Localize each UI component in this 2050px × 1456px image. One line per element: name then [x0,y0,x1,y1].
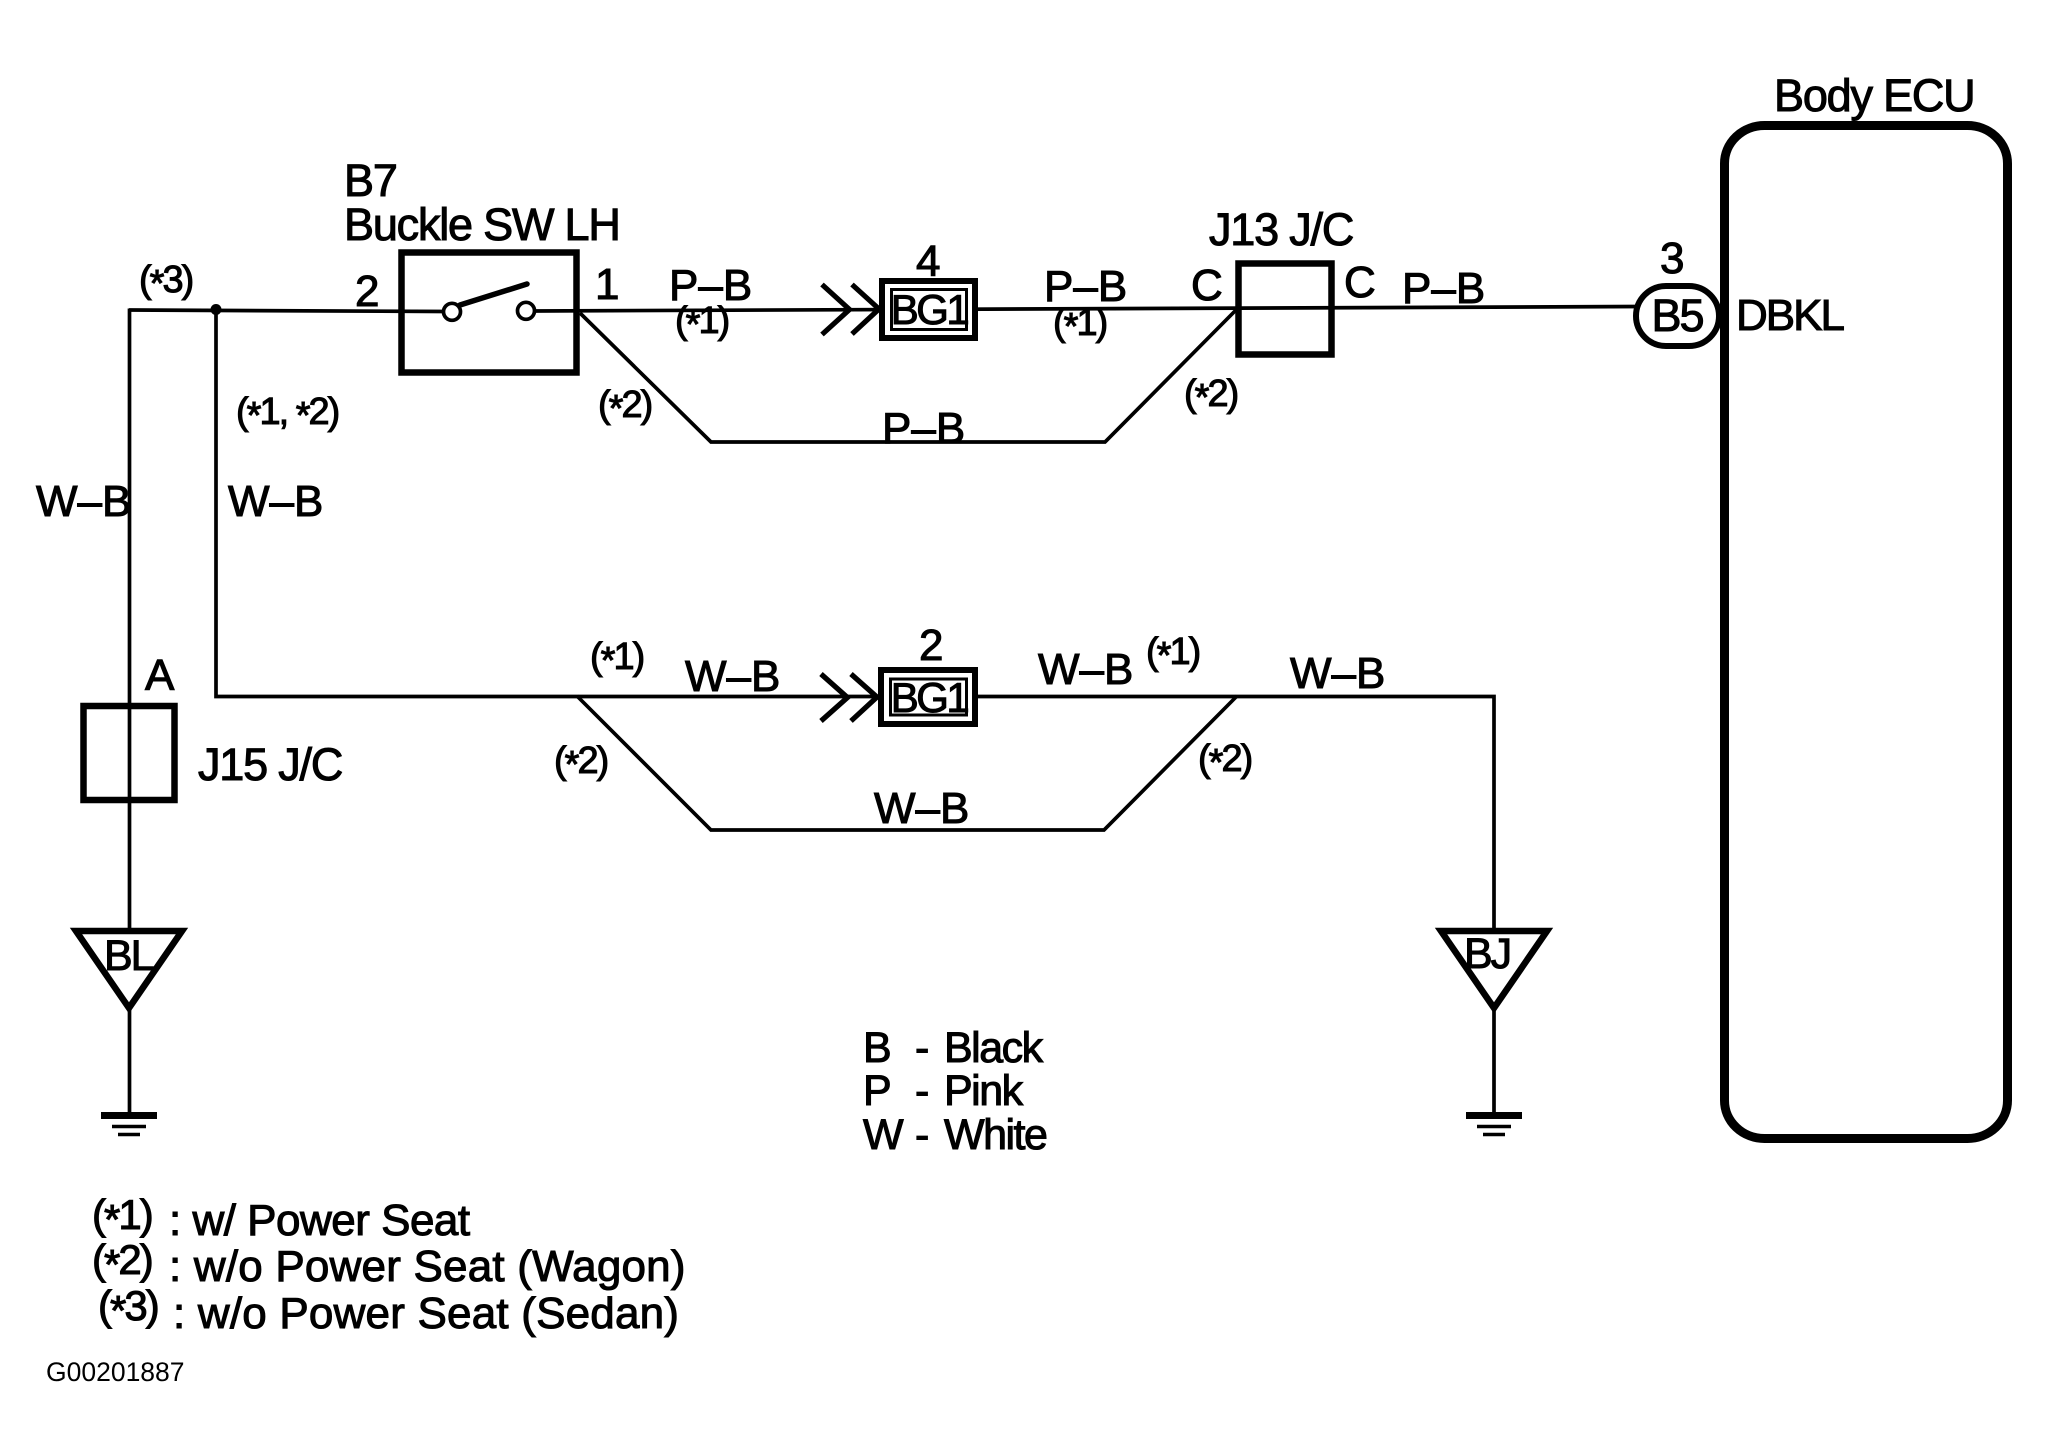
svg-text:4: 4 [916,237,940,286]
connector B5 oval [1636,286,1719,346]
connector arrows row1 [822,285,850,335]
svg-text:: w/o Power Seat (Sedan): : w/o Power Seat (Sedan) [173,1289,679,1338]
svg-text:W–B: W–B [874,784,969,833]
Body ECU box [1725,126,2008,1139]
ground symbol BL [101,1112,157,1119]
wire: left W-B vertical to BL [128,309,132,929]
wire: main row1 P-B net right segment [532,307,1640,312]
svg-text:(*2): (*2) [92,1236,152,1288]
svg-text:(*1, *2): (*1, *2) [236,391,339,437]
switch contact left [444,303,461,320]
svg-text:P: P [863,1067,892,1115]
wire: row2 (*2) bypass [577,696,1237,830]
svg-text:2: 2 [919,621,943,670]
switch B7 box [402,253,577,373]
svg-text:B5: B5 [1651,290,1703,341]
switch lever [460,284,527,305]
wire: row1 (*2) bypass [580,310,1236,442]
svg-text:2: 2 [355,267,379,316]
svg-text:(*2): (*2) [1198,738,1252,784]
svg-text:Black: Black [944,1024,1044,1072]
svg-text:P–B: P–B [882,404,965,453]
junction J15 J/C box [84,706,175,800]
svg-text:(*3): (*3) [98,1282,158,1334]
svg-text:W–B: W–B [685,652,780,701]
svg-text:(*2): (*2) [598,384,652,430]
svg-text:W–B: W–B [1038,645,1133,694]
svg-text:B: B [863,1024,892,1072]
svg-text:: w/ Power Seat: : w/ Power Seat [169,1196,470,1245]
svg-text:C: C [1344,258,1376,307]
svg-text:White: White [944,1111,1046,1159]
svg-text:J15 J/C: J15 J/C [198,739,342,790]
svg-text:C: C [1191,261,1223,310]
junction J13 J/C box [1239,264,1332,355]
svg-text:(*2): (*2) [1184,373,1238,419]
svg-text:-: - [915,1111,929,1159]
connector arrows row2 [821,674,848,721]
svg-text:Pink: Pink [944,1067,1024,1115]
connector BG1 row2 (pin 2) [881,670,975,724]
svg-text:3: 3 [1660,234,1684,283]
svg-text:(*1): (*1) [1146,631,1200,677]
svg-text:P–B: P–B [1402,264,1485,313]
svg-text:1: 1 [595,260,619,309]
svg-text:W: W [863,1111,904,1159]
wire: BL triangle to ground [128,1010,132,1114]
svg-text:BL: BL [104,932,154,980]
svg-text:: w/o Power Seat (Wagon): : w/o Power Seat (Wagon) [169,1242,686,1291]
node: junction dot [211,304,222,315]
svg-text:DBKL: DBKL [1736,291,1844,340]
ground triangle BL [76,931,182,1008]
svg-text:BJ: BJ [1464,930,1510,978]
svg-text:Buckle SW LH: Buckle SW LH [344,199,620,250]
svg-text:BG1: BG1 [891,286,969,333]
svg-text:Body ECU: Body ECU [1774,70,1974,121]
svg-text:A: A [145,651,175,700]
svg-text:(*1): (*1) [675,300,729,346]
svg-text:(*1): (*1) [1053,302,1107,348]
switch contact right [518,302,535,319]
svg-text:(*3): (*3) [139,259,193,305]
svg-text:-: - [915,1024,929,1072]
connector BG1 row1 (pin 4) [882,281,975,338]
svg-text:BG1: BG1 [891,674,969,721]
svg-text:-: - [915,1067,929,1115]
ground triangle BJ [1441,931,1547,1008]
svg-text:G00201887: G00201887 [46,1357,185,1387]
svg-text:(*1): (*1) [590,636,644,682]
svg-text:(*2): (*2) [554,740,608,786]
wire: main row1 P-B net left segment [129,310,447,312]
wire: second W-B vertical and row2 horizontal [216,310,1494,929]
ground symbol BJ [1466,1112,1522,1119]
wire: BJ triangle to ground [1492,1010,1496,1114]
svg-text:W–B: W–B [36,477,131,526]
svg-text:W–B: W–B [228,477,323,526]
svg-text:W–B: W–B [1290,649,1385,698]
svg-text:J13 J/C: J13 J/C [1209,204,1353,255]
